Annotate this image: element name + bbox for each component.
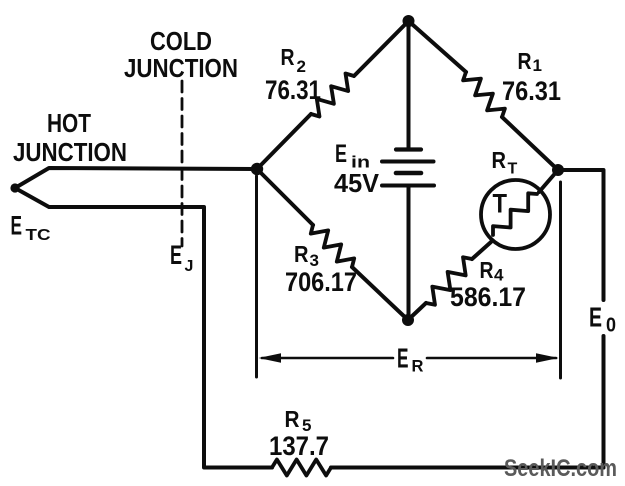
svg-text:E: E (397, 343, 409, 374)
svg-text:76.31: 76.31 (502, 76, 561, 106)
svg-text:R: R (285, 406, 300, 432)
svg-text:45V: 45V (334, 168, 380, 198)
svg-text:2: 2 (297, 57, 306, 76)
svg-text:706.17: 706.17 (285, 267, 357, 297)
svg-text:E: E (335, 140, 347, 168)
svg-text:JUNCTION: JUNCTION (124, 53, 238, 83)
svg-text:TC: TC (26, 227, 52, 244)
svg-text:E: E (589, 302, 602, 333)
svg-text:E: E (170, 240, 182, 270)
svg-text:J: J (185, 258, 194, 275)
svg-text:T: T (508, 161, 518, 178)
svg-text:1: 1 (533, 56, 542, 75)
svg-text:JUNCTION: JUNCTION (13, 137, 127, 167)
svg-text:R: R (294, 241, 309, 267)
svg-text:T: T (493, 189, 508, 219)
svg-text:COLD: COLD (150, 26, 212, 56)
svg-text:HOT: HOT (47, 108, 91, 138)
svg-text:586.17: 586.17 (450, 282, 526, 312)
svg-text:R: R (412, 358, 424, 376)
svg-text:R: R (518, 48, 532, 74)
svg-text:E: E (11, 211, 23, 241)
svg-text:137.7: 137.7 (269, 431, 329, 461)
svg-text:R: R (480, 257, 494, 283)
svg-text:SeekIC.com: SeekIC.com (504, 455, 617, 482)
svg-text:R: R (492, 147, 507, 173)
svg-text:0: 0 (606, 315, 616, 337)
svg-text:R: R (281, 44, 295, 70)
svg-text:76.31: 76.31 (265, 75, 321, 105)
